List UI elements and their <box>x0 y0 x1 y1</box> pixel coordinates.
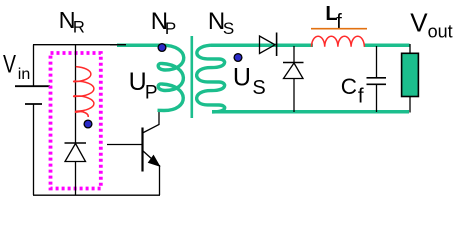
label NP <box>151 8 176 38</box>
wire black over teal joint <box>110 44 126 46</box>
svg-text:V: V <box>410 8 428 38</box>
diode D2 series (cathode bar) <box>276 33 278 57</box>
capacitor Cf top plate <box>367 77 387 79</box>
transistor Q1 base bar <box>141 128 143 172</box>
label UP <box>129 68 158 103</box>
transistor Q1 base lead <box>107 144 142 146</box>
svg-text:P: P <box>165 19 176 38</box>
polarity dot NP <box>158 44 166 52</box>
wire diode D1 bottom lead <box>75 162 77 196</box>
inductor Lf coil <box>312 36 365 47</box>
wire teal top rail secondary <box>211 43 313 47</box>
svg-text:in: in <box>18 66 30 83</box>
wire diode D3 bottom lead <box>293 79 295 113</box>
label Vout <box>410 8 452 42</box>
dashed box reset winding <box>51 53 101 189</box>
underline Lf orange <box>311 28 367 30</box>
svg-text:f: f <box>358 84 364 107</box>
svg-text:P: P <box>145 82 158 103</box>
diode D1 reset (cathode bar) <box>65 142 87 144</box>
capacitor Cf top lead <box>376 46 378 78</box>
wire node NR down lead <box>75 45 77 143</box>
svg-text:V: V <box>3 50 16 78</box>
diode D1 reset (triangle) <box>65 144 86 162</box>
capacitor Cf bottom lead <box>376 84 378 112</box>
wire top rail black from battery to transformer <box>33 44 126 46</box>
svg-text:S: S <box>252 77 265 99</box>
label Lf <box>325 3 342 33</box>
wire teal top rail primary <box>117 43 164 47</box>
capacitor Cf bottom plate <box>367 83 387 85</box>
wire teal top rail after Lf <box>364 43 410 47</box>
svg-text:out: out <box>428 22 453 42</box>
transistor Q1 emitter <box>143 151 160 196</box>
inductor NR reset winding coil <box>74 67 94 117</box>
wire bottom return black <box>33 194 160 196</box>
diode D3 freewheeling (triangle) <box>284 63 304 79</box>
label Vin <box>3 50 30 83</box>
label Cf <box>341 74 364 107</box>
diode D3 freewheeling (cathode bar) <box>283 62 304 64</box>
polarity dot NS <box>234 54 242 62</box>
svg-text:U: U <box>233 64 251 92</box>
svg-text:R: R <box>73 18 85 36</box>
svg-text:S: S <box>223 19 234 38</box>
battery Vin bottom plate <box>25 103 42 105</box>
diode D3 freewheeling top lead <box>293 46 295 62</box>
load resistor top lead <box>409 44 411 53</box>
label NR <box>59 7 85 37</box>
battery Vin top plate <box>15 85 50 87</box>
load resistor bottom lead <box>409 97 411 113</box>
polarity dot NR <box>84 120 92 128</box>
svg-text:C: C <box>341 74 357 99</box>
transformer secondary winding NS <box>197 45 225 112</box>
diode D2 series (triangle) <box>260 36 276 54</box>
wire battery top lead <box>33 45 35 86</box>
label US <box>233 64 266 99</box>
wire teal bottom rail <box>212 110 409 114</box>
wire battery bottom lead <box>33 104 35 195</box>
label NS <box>208 8 234 38</box>
svg-text:f: f <box>336 11 342 33</box>
transistor Q1 collector <box>143 111 160 133</box>
transformer primary winding NP <box>158 45 184 110</box>
transformer core <box>191 36 194 118</box>
load resistor body <box>402 53 419 96</box>
